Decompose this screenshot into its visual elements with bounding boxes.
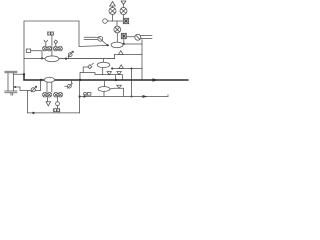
node circle left of header [103,19,108,24]
bypass line y74.6 [95,75,123,80]
gauge pair 08 top [48,32,54,35]
big box right edge [78,21,80,47]
actuator stems A [46,44,56,47]
X1 drop to pump outlet [123,39,125,44]
drain riser to bold line [40,80,42,90]
pump E2 ellipse [97,62,110,67]
junction dot at EA inlet [41,57,43,59]
valve V2 actuator funnel [121,1,126,5]
valve V2 stem [123,5,125,19]
junction dot x116 [115,79,117,81]
valve V2 circle [120,8,127,15]
check valve triangle upper [119,51,124,55]
check valve nabla 2 [117,72,122,75]
E1 outlet line to trunk [125,43,143,45]
dot on bottom line [32,112,34,114]
bypass line upper shelf [80,73,95,81]
lower line y96.5 [80,96,168,98]
main line left of EA [24,58,45,60]
X1 to regulator line [126,36,135,38]
valve V1 stem [112,6,114,21]
junction dot E1 inlet [107,44,109,46]
check valve nabla 3 [117,85,122,88]
lower line flow arrow [143,95,148,98]
E3 legs [47,82,52,92]
dot bottom x131.5 [131,96,133,98]
main line right of EA [59,58,115,60]
vessel top cap [5,71,17,73]
gauge pair 08 bottom [54,109,60,113]
valve row B crosses [43,93,62,96]
slash valve circle [98,36,103,41]
check line upper riser [114,54,116,58]
check valve triangle mid [119,65,124,69]
vent double lines [141,35,152,38]
B1 wire [31,51,42,57]
junction dot x80 [79,79,81,81]
E2 outlet stem [102,68,104,75]
filter box X2 [123,18,128,23]
diagonal to pump inlet [102,41,107,46]
pump E4 ellipse [98,87,110,92]
vessel bottom flanges [5,91,17,93]
actuator diamond [54,40,58,44]
bold main line [24,74,188,80]
dot top x131.5 [131,68,133,70]
lower ladder link [110,88,124,96]
header line y21 [107,20,123,22]
gauge G4 box [87,93,91,96]
vessel body [8,73,14,91]
E1 outlet dot [123,43,125,45]
needle valve G3 below bold line [65,85,68,87]
check line mid [112,68,142,70]
vessel top outlet line [14,73,25,75]
needle valve G1 [68,53,72,57]
lower line dot [83,95,85,97]
lower line dot left [79,95,81,97]
lower line end hook [167,95,169,97]
cluster A vertical pipe [51,35,53,56]
branch down left [27,90,79,113]
big box left edge / down pipe [23,21,25,74]
pump E4 riser [103,80,105,87]
pump E4 outlet stem [103,91,105,96]
vessel foot [11,93,13,96]
big box bottom edge to pump inlet [79,45,108,46]
cross vertical x131.5 [131,69,133,97]
needle valve G5 [31,88,35,92]
check line mid dot [111,67,113,69]
valve row A crosses [43,47,62,50]
actuator circle B [56,102,60,106]
drain line from vessel [14,87,41,90]
glyph G2 stub [83,67,87,73]
gauge G4 riser [85,94,87,96]
junction dot main [65,58,67,60]
stem to bottom line [57,106,59,109]
check line upper [115,53,143,55]
pump E3 ellipse [44,77,54,82]
valve V3 cross [115,27,120,32]
valve V3 circle [114,26,121,33]
valve V1 cross [110,9,115,14]
filter box X1 [121,33,126,38]
trunk down from regulator [141,40,143,81]
check valve nabla 1 [107,72,112,75]
gauge G4 circle [84,92,87,95]
valve V1 actuator triangle [110,2,116,7]
needle valve G1 riser [68,56,70,58]
valve V3 stem top [116,21,118,26]
valve V2 cross [121,9,126,14]
pump E1 ellipse [111,42,123,48]
glyph G2 diamond [88,65,92,69]
sensor box B1 [26,49,30,52]
drain dot [14,86,16,88]
valve V1 circle [109,8,116,15]
regulator circle R [135,34,141,40]
pump EA ellipse [45,56,59,62]
hose double lines [84,37,98,39]
junction dot vessel outlet [23,73,25,75]
actuator stems B [48,97,58,102]
flow arrow [153,78,159,81]
T riser from main to E2 [103,59,105,62]
big box top edge [24,20,79,22]
valve row B circles [43,92,48,97]
actuator Y [44,40,48,44]
riser bold to lower line [79,80,81,113]
valve V3 stem bottom [116,33,118,42]
junction dot x41 [40,79,42,81]
actuator funnel B [46,102,51,106]
valve row A circles [43,46,48,51]
